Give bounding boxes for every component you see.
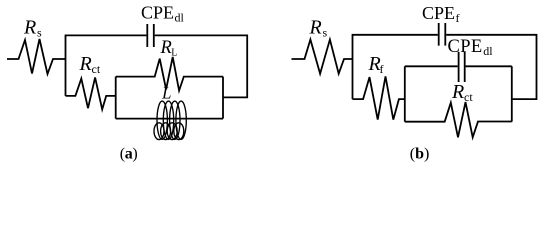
inductor L coil (a) bbox=[154, 101, 186, 139]
svg-text:s: s bbox=[37, 26, 42, 40]
wire inner box right edge (a) bbox=[222, 77, 224, 119]
svg-text:R: R bbox=[451, 81, 464, 103]
svg-text:R: R bbox=[79, 53, 92, 75]
svg-text:R: R bbox=[23, 17, 36, 39]
capacitor CPE_dl (b) plates bbox=[459, 52, 465, 82]
svg-text:L: L bbox=[171, 48, 177, 59]
svg-text:f: f bbox=[456, 11, 460, 25]
wire inner box left edge (b) bbox=[404, 66, 406, 121]
wire inner box top edge (b) bbox=[405, 65, 512, 67]
wire entry (a) and resistor R_s (a) bbox=[7, 39, 66, 74]
svg-text:ct: ct bbox=[464, 90, 473, 104]
resistor R_ct (b) on inner box bottom edge bbox=[405, 102, 512, 137]
resistor R_ct (a) bbox=[66, 77, 116, 109]
svg-text:CPE: CPE bbox=[141, 3, 174, 23]
capacitor CPE_dl (a) plates bbox=[147, 24, 154, 47]
svg-text:dl: dl bbox=[175, 11, 185, 25]
wire inner box left edge (a) bbox=[115, 77, 117, 119]
wire inner box right edge (b) bbox=[511, 66, 513, 121]
wire entry (b) and resistor R_s (b) bbox=[292, 40, 353, 74]
svg-text:R: R bbox=[160, 38, 172, 58]
wire inner box bottom edge (a) bbox=[116, 118, 223, 120]
svg-text:L: L bbox=[161, 84, 171, 103]
svg-text:CPE: CPE bbox=[448, 37, 483, 57]
capacitor CPE_f (b) plates bbox=[439, 23, 446, 46]
wire outer loop (a): left edge, top wire, right edge, output wire bbox=[66, 35, 248, 97]
wire outer loop (b): left edge, top wire, right edge, output wire bbox=[353, 35, 537, 99]
resistor R_L (a) on inner box top edge bbox=[116, 57, 223, 91]
svg-text:CPE: CPE bbox=[422, 3, 455, 23]
svg-text:(a): (a) bbox=[120, 146, 138, 163]
resistor R_f (b) bbox=[353, 76, 405, 119]
svg-text:dl: dl bbox=[483, 44, 493, 58]
svg-text:(b): (b) bbox=[410, 146, 430, 163]
svg-text:ct: ct bbox=[92, 62, 101, 76]
svg-text:f: f bbox=[380, 62, 384, 76]
svg-text:s: s bbox=[323, 26, 328, 40]
svg-text:R: R bbox=[309, 17, 322, 39]
